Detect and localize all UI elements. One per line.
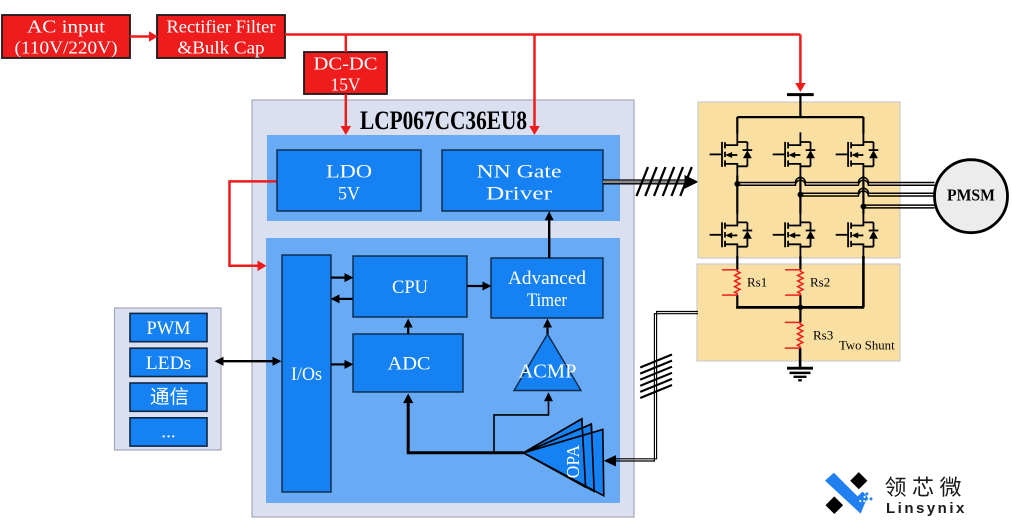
svg-text:Rs2: Rs2 <box>810 275 830 290</box>
svg-text:Driver: Driver <box>486 184 553 205</box>
svg-text:(110V/220V): (110V/220V) <box>15 38 118 58</box>
svg-text:PWM: PWM <box>147 318 191 339</box>
svg-text:I/Os: I/Os <box>291 364 322 385</box>
svg-text:Rs3: Rs3 <box>813 328 833 343</box>
svg-text:Rectifier Filter: Rectifier Filter <box>167 17 276 37</box>
svg-text:NN Gate: NN Gate <box>477 162 562 183</box>
svg-text:Two Shunt: Two Shunt <box>839 339 895 353</box>
svg-text:LEDs: LEDs <box>146 353 192 374</box>
svg-text:DC-DC: DC-DC <box>314 54 378 74</box>
svg-text:Advanced: Advanced <box>508 268 586 289</box>
svg-text:15V: 15V <box>331 75 361 95</box>
svg-text:Rs1: Rs1 <box>747 275 767 290</box>
svg-text:LDO: LDO <box>326 162 372 183</box>
svg-text:5V: 5V <box>338 184 360 205</box>
svg-text:&Bulk Cap: &Bulk Cap <box>178 38 265 58</box>
svg-text:Timer: Timer <box>527 290 568 311</box>
svg-text:OPA: OPA <box>563 444 583 478</box>
svg-text:ACMP: ACMP <box>519 362 577 383</box>
svg-text:AC input: AC input <box>27 17 105 37</box>
svg-text:PMSM: PMSM <box>947 186 995 205</box>
svg-text:...: ... <box>161 421 175 442</box>
svg-text:LCP067CC36EU8: LCP067CC36EU8 <box>360 106 527 135</box>
svg-text:ADC: ADC <box>388 354 431 375</box>
svg-text:CPU: CPU <box>392 277 428 298</box>
svg-text:Linsynix: Linsynix <box>886 500 967 517</box>
